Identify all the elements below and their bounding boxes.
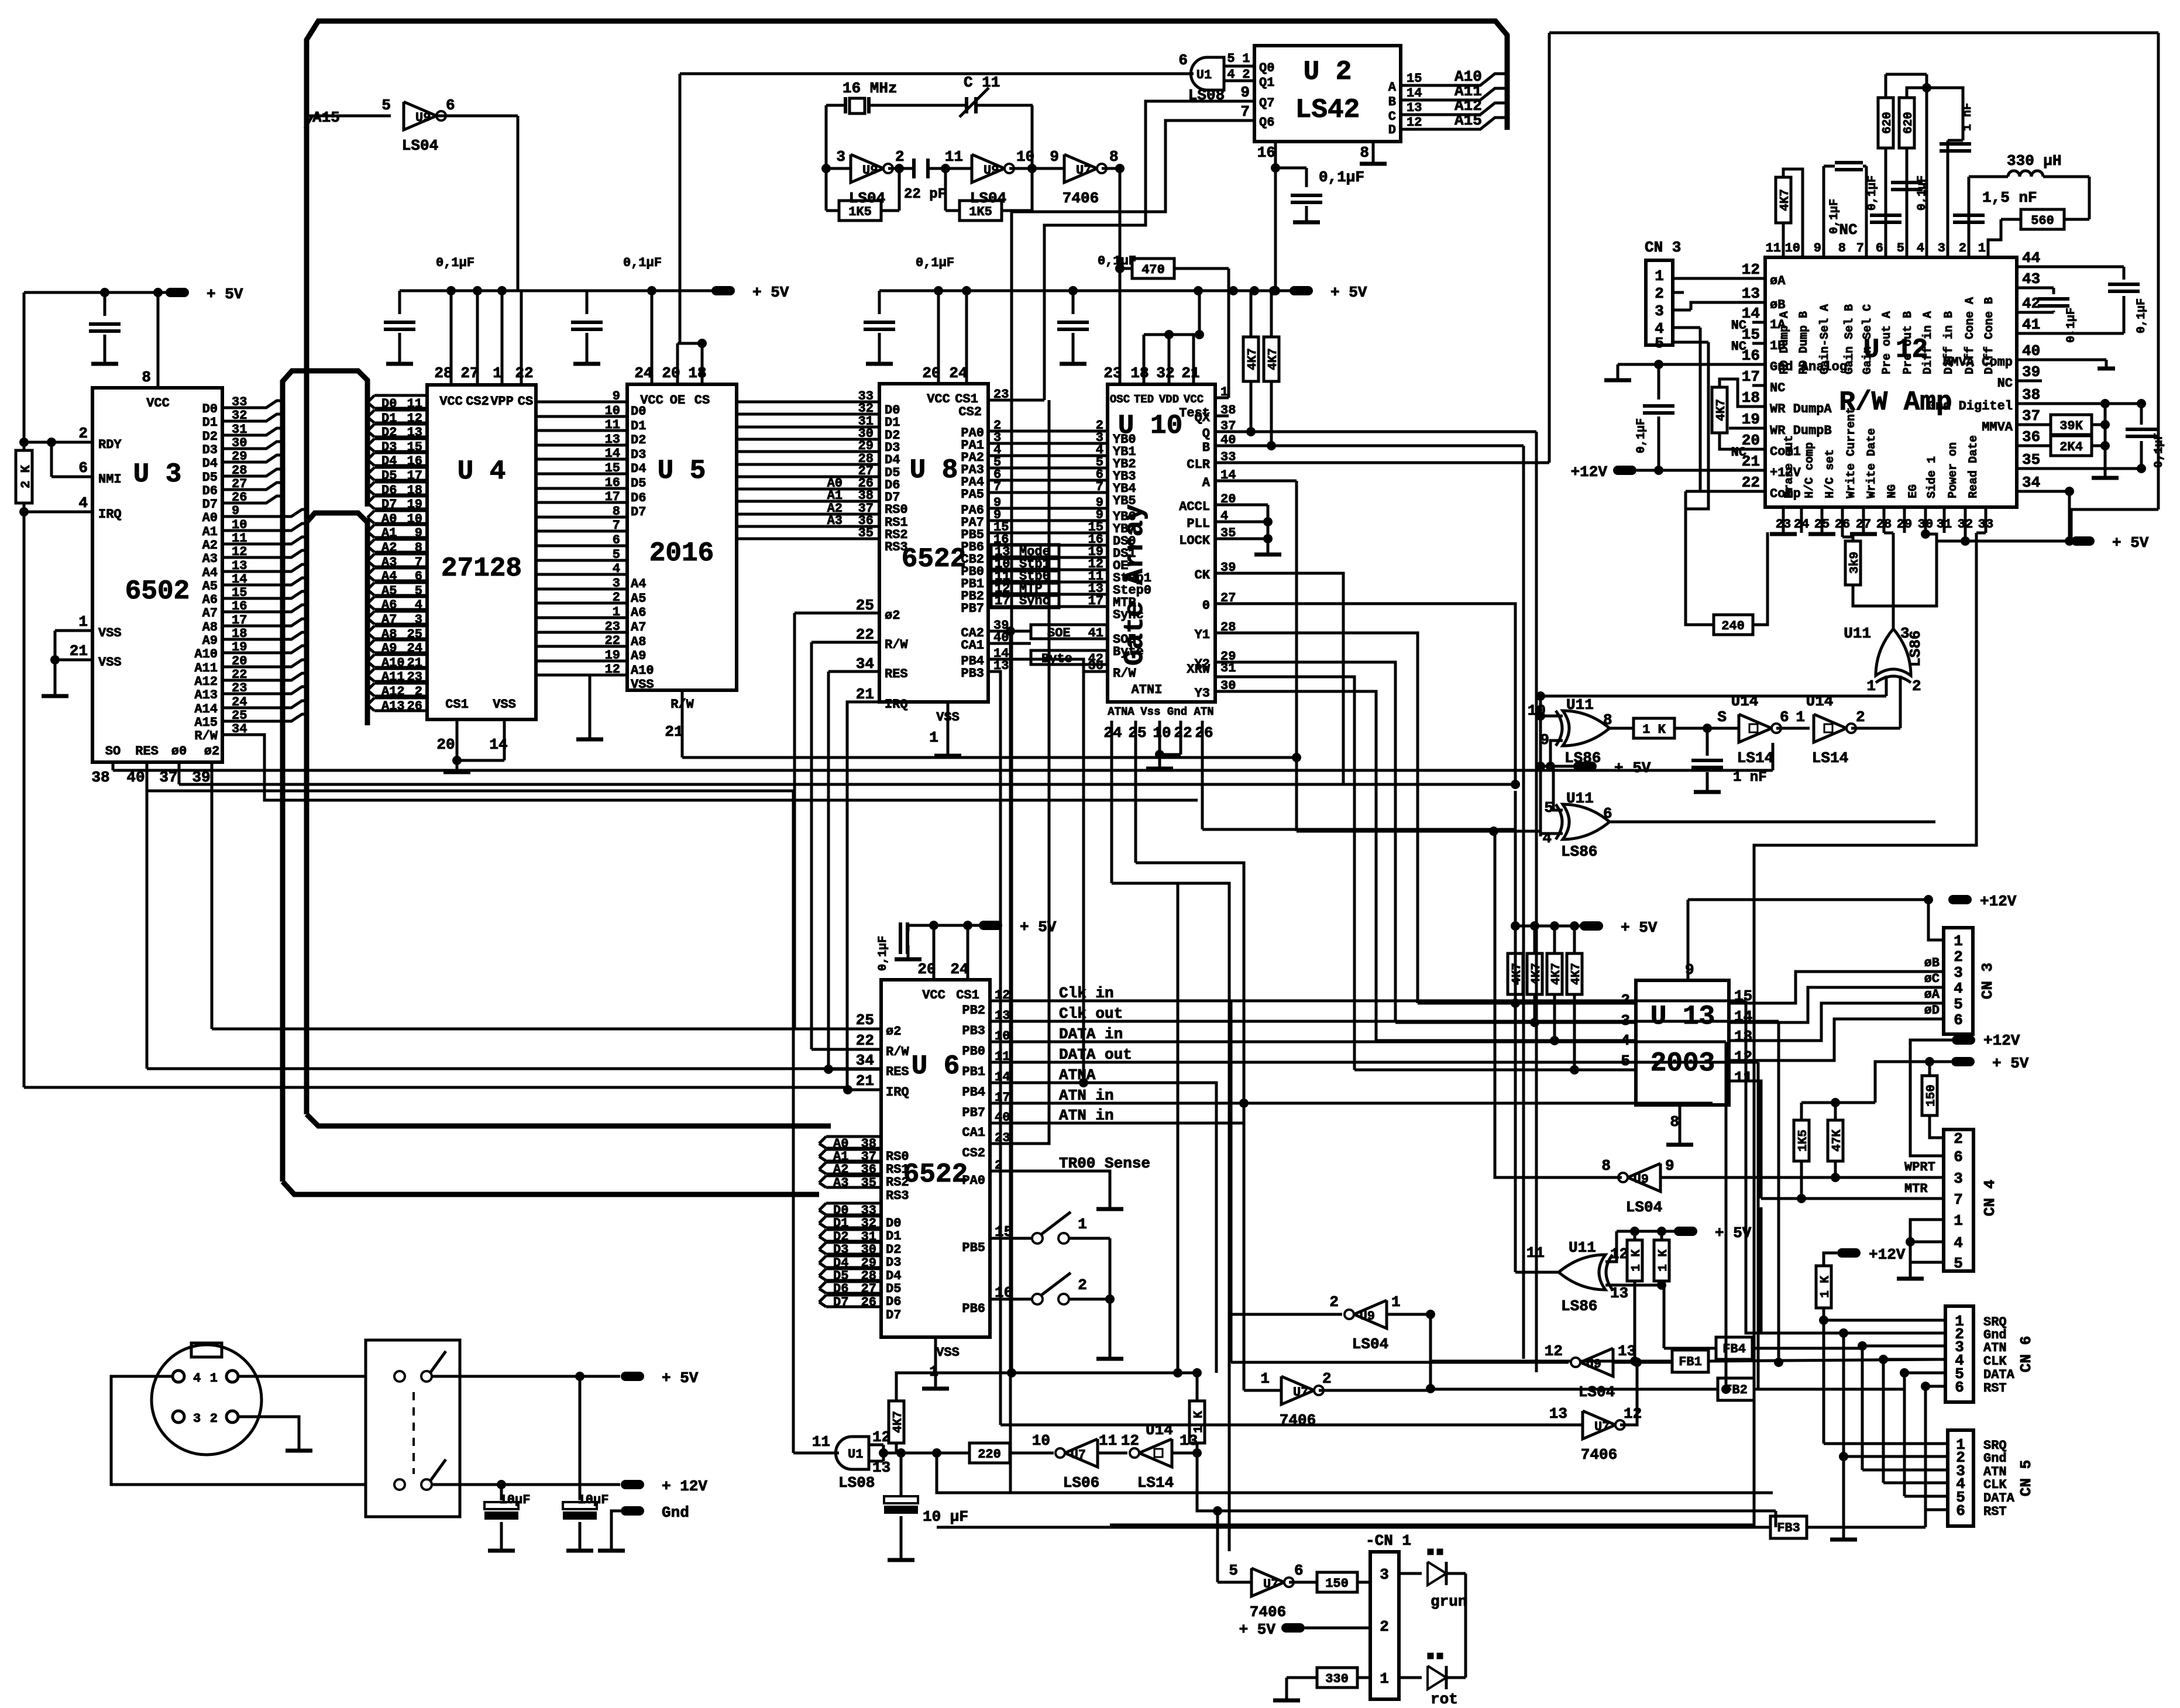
svg-text:2: 2 [1912, 677, 1921, 695]
svg-text:26: 26 [1195, 724, 1213, 742]
svg-text:9: 9 [1050, 148, 1059, 166]
svg-text:PB7: PB7 [962, 1106, 985, 1120]
inductor 330 uH [1969, 152, 2089, 219]
svg-text:4: 4 [193, 1371, 201, 1386]
svg-text:D1: D1 [631, 419, 646, 433]
svg-text:D3: D3 [631, 447, 646, 462]
XOR gate U11 LS86 atna [1515, 791, 1666, 1315]
svg-text:A6: A6 [202, 593, 218, 607]
svg-text:+ 5V: + 5V [1992, 1055, 2029, 1072]
inverter U9 LS04 clk out [1231, 1342, 1673, 1401]
svg-text:CS1: CS1 [445, 697, 469, 712]
svg-text:560: 560 [2031, 213, 2054, 228]
U3 VSS ground [42, 631, 92, 696]
U12 1A 1B NC stubs [1752, 322, 1765, 449]
svg-text:1 K: 1 K [1642, 722, 1666, 737]
resistor 1 K pullup SRQ [1816, 1246, 1906, 1325]
svg-text:A9: A9 [631, 649, 646, 663]
svg-text:11: 11 [1734, 1069, 1752, 1086]
svg-text:41: 41 [2022, 316, 2040, 333]
svg-text:4K7: 4K7 [1715, 399, 1728, 421]
svg-text:220: 220 [978, 1447, 1001, 1462]
svg-text:CN 6: CN 6 [2017, 1336, 2035, 1372]
svg-text:Write Date: Write Date [1865, 428, 1879, 498]
svg-text:grun: grun [1431, 1593, 1467, 1610]
svg-text:8: 8 [142, 369, 151, 386]
svg-text:U11: U11 [1566, 696, 1594, 714]
svg-text:D7: D7 [631, 505, 646, 519]
MMVA comp stub [2017, 360, 2115, 381]
svg-text:A15: A15 [194, 715, 218, 730]
svg-text:A13: A13 [194, 688, 218, 703]
svg-text:A11: A11 [194, 661, 218, 676]
svg-text:2K4: 2K4 [2059, 440, 2083, 454]
svg-text:4K7: 4K7 [1246, 348, 1260, 370]
svg-text:1: 1 [613, 605, 620, 619]
U12 bottom rotated labels [1776, 407, 1993, 532]
svg-text:38: 38 [2022, 386, 2040, 404]
svg-text:LS86: LS86 [1561, 843, 1597, 860]
svg-text:Q0: Q0 [1259, 61, 1274, 75]
svg-text:C 11: C 11 [964, 74, 1000, 91]
svg-text:0,1µF: 0,1µF [436, 256, 474, 270]
U12 left pin rows [1731, 261, 1847, 501]
inverter U7 7406 data [1244, 1370, 1431, 1429]
+5V feed CN1 [1239, 1621, 1370, 1638]
input line from left to XOR read2 [1297, 757, 1541, 836]
svg-text:35: 35 [858, 526, 874, 540]
svg-text:LS06: LS06 [1063, 1474, 1099, 1492]
svg-text:ø2: ø2 [886, 1024, 901, 1039]
svg-text:Q1: Q1 [1259, 75, 1274, 90]
U10 Vss Gnd ground [1146, 721, 1181, 769]
U5-U8 interconnect ladder [737, 389, 879, 540]
svg-text:13: 13 [1549, 1405, 1567, 1423]
svg-text:1 K: 1 K [1192, 1411, 1206, 1433]
U3 RDY/NMI/IRQ wires [19, 438, 848, 1090]
XOR U11 LS86 read1 [1528, 696, 1634, 767]
svg-text:Read Date: Read Date [1967, 435, 1980, 498]
+5V rail right [1937, 533, 2149, 552]
svg-text:U1: U1 [848, 1447, 863, 1462]
inverter U9 LS04 wprt [1495, 831, 1944, 1216]
svg-text:Q7: Q7 [1259, 96, 1274, 111]
svg-text:2 K: 2 K [19, 464, 33, 488]
svg-text:0: 0 [1202, 598, 1210, 613]
svg-text:3: 3 [1380, 1566, 1389, 1583]
svg-text:8: 8 [1670, 1113, 1679, 1131]
cap 0.1uF MMVA [2017, 404, 2166, 473]
+12V and +5V feeds CN4 [1910, 1032, 2020, 1156]
svg-text:D3: D3 [202, 443, 218, 457]
capacitor 10uF no1 [484, 1485, 518, 1551]
svg-text:22: 22 [1174, 724, 1192, 742]
svg-text:VCC: VCC [146, 396, 170, 411]
svg-text:D1: D1 [202, 415, 218, 430]
svg-text:RES: RES [135, 744, 159, 759]
svg-text:+ 5V: + 5V [207, 285, 243, 303]
svg-text:9: 9 [613, 389, 620, 404]
switch PB6 [962, 1273, 1123, 1359]
svg-text:A: A [1388, 80, 1397, 95]
svg-text:1,5 nF: 1,5 nF [1982, 189, 2037, 206]
svg-text:9: 9 [1665, 1157, 1674, 1175]
svg-text:12: 12 [1734, 1048, 1752, 1066]
connector CN 1 LED [1366, 1532, 1411, 1699]
svg-text:rot: rot [1431, 1690, 1458, 1708]
svg-text:2: 2 [1954, 1130, 1963, 1148]
svg-text:39K: 39K [2059, 419, 2083, 433]
svg-text:0,1µF: 0,1µF [623, 256, 662, 270]
svg-text:+12V: +12V [1869, 1246, 1906, 1263]
svg-text:1K5: 1K5 [848, 205, 872, 219]
svg-text:2: 2 [1078, 1276, 1087, 1294]
svg-text:1: 1 [1978, 241, 1986, 256]
svg-text:A: A [1202, 476, 1211, 490]
crystal 16 MHz [826, 80, 967, 113]
U6 +5V rail and 0.1uF cap [876, 918, 1057, 971]
svg-text:D5: D5 [631, 476, 646, 491]
svg-text:PB6: PB6 [962, 1301, 985, 1316]
svg-text:NC: NC [1839, 221, 1857, 239]
svg-text:PLL: PLL [1187, 516, 1210, 531]
svg-text:CS: CS [518, 394, 533, 409]
address bus envelope to U4 (thick) [283, 513, 819, 1194]
svg-text:35: 35 [2022, 451, 2040, 469]
svg-text:0,1µF: 0,1µF [916, 256, 954, 270]
svg-text:6: 6 [78, 459, 88, 477]
svg-text:35: 35 [861, 1176, 876, 1190]
svg-text:R/W: R/W [194, 729, 218, 743]
svg-text:24: 24 [949, 364, 967, 382]
svg-text:5: 5 [1897, 241, 1904, 256]
svg-text:D6: D6 [202, 484, 218, 498]
svg-text:8: 8 [1601, 1157, 1611, 1175]
svg-text:2: 2 [895, 148, 905, 166]
svg-text:1: 1 [929, 729, 938, 746]
capacitor 22 pF [904, 159, 972, 202]
svg-text:2003: 2003 [1651, 1048, 1715, 1079]
DIN power connector [152, 1343, 262, 1455]
svg-text:6502: 6502 [125, 576, 190, 607]
svg-text:Gnd: Gnd [662, 1504, 689, 1521]
svg-text:11: 11 [1526, 1244, 1545, 1262]
cap 1.5 nF [1953, 189, 2037, 222]
svg-text:NC: NC [1770, 381, 1785, 395]
svg-text:RST: RST [1983, 1504, 2007, 1519]
resistor 4K7 WR dump [1712, 379, 1765, 449]
svg-text:10: 10 [1032, 1432, 1050, 1449]
svg-text:47K: 47K [1831, 1130, 1844, 1152]
svg-text:PB3: PB3 [961, 666, 984, 681]
svg-text:4: 4 [1917, 241, 1924, 256]
+5V rail top-left with 0.1uF cap [24, 285, 243, 364]
svg-text:PB2: PB2 [962, 1003, 985, 1018]
svg-text:2: 2 [613, 590, 620, 605]
inverter U7 7406 LED [1213, 1506, 1317, 1621]
long control lines middle [113, 259, 1773, 770]
svg-text:10µF: 10µF [500, 1493, 531, 1507]
svg-text:34: 34 [2022, 474, 2040, 491]
+5V rail above U8 U10 [864, 254, 1367, 364]
svg-text:PB7: PB7 [961, 601, 984, 616]
svg-text:19: 19 [605, 648, 620, 663]
svg-text:A3: A3 [833, 1176, 848, 1190]
inverter U9 LS04 osc1 [821, 105, 914, 211]
svg-text:U 13: U 13 [1651, 1001, 1715, 1032]
svg-text:RES: RES [886, 1065, 909, 1079]
svg-text:1: 1 [210, 1371, 218, 1386]
svg-text:NC: NC [1731, 318, 1746, 333]
resistor 4K7 pull-up reset [889, 883, 1197, 1458]
svg-text:D2: D2 [631, 433, 646, 447]
net label A15 [305, 109, 391, 129]
svg-text:4K7: 4K7 [1511, 963, 1524, 985]
svg-text:U7: U7 [1071, 1448, 1086, 1462]
svg-text:U9: U9 [1586, 1357, 1601, 1372]
svg-text:VSS: VSS [98, 655, 122, 670]
IC U6 6522 VIA 2 [881, 921, 990, 1389]
svg-text:7: 7 [1096, 480, 1103, 494]
svg-text:16 MHz: 16 MHz [843, 80, 898, 97]
U13 left pins [1354, 991, 1636, 1070]
svg-text:1: 1 [1260, 1370, 1270, 1387]
AND gate U1 LS08 select [1178, 51, 1254, 104]
svg-text:3: 3 [1621, 1012, 1630, 1029]
svg-text:3: 3 [613, 576, 620, 591]
svg-text:6: 6 [613, 533, 620, 547]
svg-text:A14: A14 [194, 702, 218, 717]
svg-text:ATNA: ATNA [1108, 705, 1134, 718]
svg-text:CA1: CA1 [962, 1125, 985, 1140]
svg-text:øB: øB [1770, 298, 1785, 312]
svg-text:VCC: VCC [927, 392, 950, 407]
svg-text:+ 5V: + 5V [1614, 759, 1651, 777]
svg-text:4K7: 4K7 [892, 1411, 905, 1433]
svg-text:+ 5V: + 5V [1239, 1621, 1276, 1638]
svg-text:LS42: LS42 [1295, 95, 1360, 125]
svg-text:PA0: PA0 [962, 1173, 985, 1188]
resistor 1K5 feedback 2 [945, 168, 1032, 221]
svg-text:1: 1 [78, 613, 88, 631]
inverter U9 LS04 A15->CS [381, 97, 518, 291]
svg-text:150: 150 [1925, 1084, 1938, 1107]
U12 right pin rows [1928, 249, 2040, 491]
svg-text:4: 4 [78, 494, 88, 512]
svg-text:MTR: MTR [1904, 1182, 1928, 1196]
svg-text:0,1µF: 0,1µF [2135, 298, 2148, 333]
resistor 470 on Test [1115, 259, 1229, 278]
svg-text:11: 11 [812, 1433, 830, 1451]
svg-text:4: 4 [613, 562, 620, 576]
svg-text:16: 16 [605, 476, 620, 490]
inverter U14 LS14 s2 [1796, 693, 1900, 767]
svg-text:CLK: CLK [1983, 1478, 2007, 1492]
Comp wire to 240 [1686, 490, 1765, 493]
svg-text:3: 3 [1954, 1170, 1963, 1187]
svg-text:+ 5V: + 5V [1330, 284, 1367, 301]
IC U12 R/W Amp [1765, 257, 2017, 507]
svg-text:22 pF: 22 pF [904, 187, 946, 202]
svg-text:17: 17 [605, 490, 620, 504]
svg-text:17: 17 [1742, 368, 1760, 385]
svg-text:+ 5V: + 5V [752, 284, 789, 301]
resistor 4k7 pullup pair on Q/B [1243, 291, 1280, 446]
svg-text:PA5: PA5 [961, 487, 984, 502]
svg-text:11: 11 [945, 148, 963, 166]
IC U4 27128 EPROM [427, 291, 536, 753]
U2 Q0 Q1 to U1 gate [696, 66, 1254, 81]
svg-text:5: 5 [1655, 335, 1664, 352]
svg-text:0,1µF: 0,1µF [2065, 308, 2078, 343]
svg-text:CS: CS [694, 393, 710, 408]
+5V +12V outputs [432, 1369, 707, 1495]
svg-text:8: 8 [1109, 148, 1119, 166]
U8 right pin wires to U10 [958, 387, 1108, 1493]
svg-text:LS08: LS08 [838, 1474, 875, 1492]
svg-text:5: 5 [1954, 996, 1963, 1013]
svg-text:4K7: 4K7 [1570, 963, 1583, 985]
svg-text:5: 5 [1954, 1255, 1963, 1272]
svg-text:DATA: DATA [1983, 1368, 2015, 1382]
svg-text:U 4: U 4 [458, 456, 506, 487]
power switch box [366, 1340, 460, 1517]
svg-text:6: 6 [1603, 805, 1612, 822]
svg-text:Side 1: Side 1 [1925, 456, 1939, 498]
svg-text:6: 6 [1954, 1011, 1963, 1029]
svg-text:6: 6 [446, 97, 455, 114]
svg-text:CS2: CS2 [466, 394, 489, 409]
svg-text:VSS: VSS [936, 1345, 960, 1360]
svg-text:D7: D7 [886, 1308, 901, 1323]
pin 44-41 caps right [2017, 267, 2148, 343]
svg-text:34: 34 [856, 1052, 874, 1069]
ferrite bead FB1 [1431, 1350, 1945, 1372]
U2 Q7 Q6 routing down [1007, 101, 1254, 1378]
svg-text:IRQ: IRQ [885, 697, 908, 712]
svg-text:1K5: 1K5 [1797, 1130, 1810, 1152]
svg-text:26: 26 [407, 699, 422, 714]
svg-text:6: 6 [1780, 708, 1789, 726]
svg-text:A4: A4 [631, 577, 646, 591]
svg-text:DATA: DATA [1983, 1491, 2015, 1506]
svg-text:U1: U1 [1196, 68, 1212, 82]
svg-text:12: 12 [1407, 115, 1422, 130]
switch PB5 [962, 1212, 1110, 1299]
svg-text:2016: 2016 [649, 538, 714, 569]
reset net branch [932, 1448, 1773, 1493]
svg-text:U11: U11 [1566, 790, 1594, 807]
U6 right pins and net labels [962, 400, 1779, 1373]
XOR U11 LS86 read2 [1541, 766, 1935, 860]
svg-text:18: 18 [688, 364, 706, 382]
svg-text:2: 2 [1322, 1370, 1332, 1387]
svg-text:2: 2 [78, 425, 88, 442]
svg-text:2: 2 [1329, 1293, 1339, 1311]
svg-text:LS86: LS86 [1561, 1297, 1597, 1315]
svg-text:3k9: 3k9 [1848, 552, 1862, 574]
svg-text:0,1µF: 0,1µF [876, 936, 890, 971]
data bus envelope U3 to U4 (thick) [283, 371, 367, 1182]
capacitor 10 uF reset [884, 1453, 968, 1560]
svg-text:PB1: PB1 [962, 1065, 985, 1079]
svg-text:øD: øD [1924, 1003, 1940, 1018]
svg-text:10: 10 [1153, 724, 1171, 742]
LED rot [1399, 1573, 1466, 1708]
svg-text:NC: NC [1731, 445, 1746, 460]
svg-text:39: 39 [2022, 363, 2040, 381]
svg-text:6522: 6522 [902, 544, 966, 574]
resistor 1 K pull-up [1189, 1368, 1206, 1453]
svg-text:1K5: 1K5 [969, 205, 992, 219]
svg-text:XRW: XRW [1187, 662, 1210, 677]
svg-text:A0: A0 [202, 511, 218, 525]
resistor 150 green LED [1317, 1572, 1370, 1592]
svg-text:13: 13 [1610, 1285, 1628, 1302]
svg-text:22: 22 [515, 364, 533, 382]
+5V rail pullups 1K 1K [1617, 1224, 1752, 1366]
svg-text:LS04: LS04 [1579, 1383, 1615, 1401]
svg-text:OE: OE [670, 393, 685, 408]
svg-text:26: 26 [861, 1295, 876, 1310]
svg-text:27128: 27128 [441, 553, 522, 584]
svg-text:C: C [1388, 109, 1396, 124]
svg-text:U11: U11 [1569, 1239, 1596, 1256]
svg-text:6522: 6522 [903, 1159, 968, 1190]
svg-text:OSC: OSC [1110, 393, 1130, 406]
svg-text:+ 5V: + 5V [2112, 534, 2149, 552]
svg-text:LS14: LS14 [1812, 749, 1848, 767]
svg-text:13: 13 [1742, 285, 1760, 302]
resistor 39K [2017, 399, 2146, 478]
svg-text:2: 2 [1959, 241, 1966, 256]
svg-text:R/W: R/W [885, 638, 908, 652]
Read Date pin 33 route [1985, 507, 1988, 533]
svg-text:A3: A3 [827, 514, 843, 528]
IC U10 Gate Array [1103, 364, 1215, 702]
svg-text:ATN: ATN [1983, 1341, 2007, 1355]
U8 left pin labels D0-D7 RS0-RS3 [885, 403, 908, 555]
svg-text:R/W: R/W [1113, 666, 1136, 681]
svg-text:RST: RST [1983, 1381, 2007, 1396]
CN3 to U12 wires [1673, 278, 1765, 509]
svg-text:330 µH: 330 µH [2007, 152, 2062, 170]
capacitor 10uF no2 [500, 1376, 609, 1551]
svg-text:4K7: 4K7 [1550, 963, 1563, 985]
svg-text:LS04: LS04 [402, 137, 438, 154]
svg-text:150: 150 [1325, 1576, 1349, 1591]
svg-text:6: 6 [1955, 1379, 1964, 1396]
svg-text:Pre out B: Pre out B [1902, 311, 1915, 374]
svg-text:5: 5 [613, 547, 620, 562]
svg-text:D6: D6 [886, 1294, 901, 1309]
svg-text:Diff in A: Diff in A [1921, 311, 1935, 374]
svg-text:+ 12V: + 12V [662, 1478, 707, 1495]
svg-text:U 8: U 8 [910, 455, 958, 485]
svg-text:CS2: CS2 [958, 405, 982, 419]
svg-text:Sync: Sync [1113, 608, 1144, 622]
svg-text:TED: TED [1134, 393, 1154, 406]
svg-text:1 nF: 1 nF [1733, 770, 1767, 786]
svg-text:8: 8 [1360, 144, 1369, 161]
resistor 220 [901, 1443, 1054, 1463]
inverter U9 LS04 osc2 [941, 105, 1064, 211]
svg-text:7: 7 [613, 518, 620, 533]
svg-text:D4: D4 [202, 456, 218, 471]
svg-text:7406: 7406 [1581, 1446, 1617, 1463]
svg-text:NC: NC [1997, 376, 2013, 391]
svg-text:RS2: RS2 [886, 1175, 909, 1190]
